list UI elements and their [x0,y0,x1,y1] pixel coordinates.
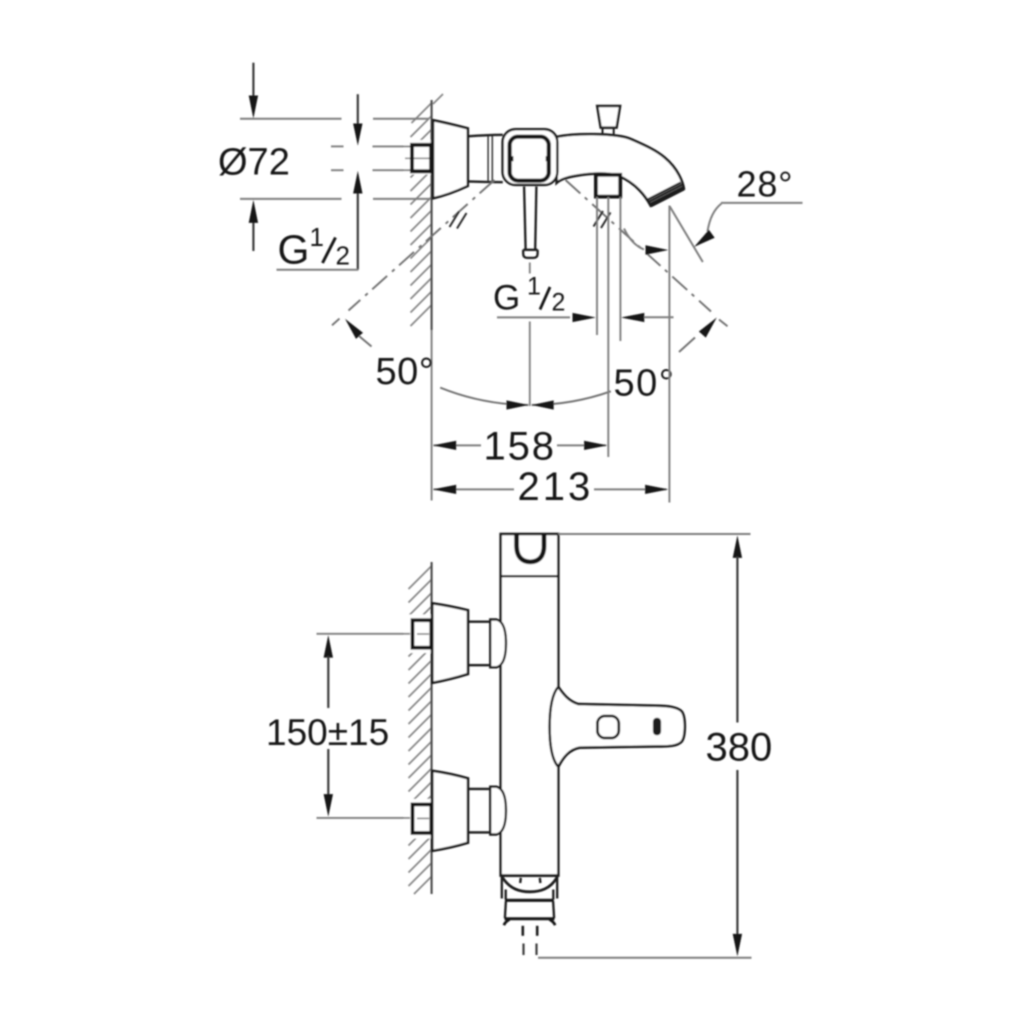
dimension 158 [433,425,608,469]
svg-text:50°: 50° [376,351,435,393]
lever button [597,716,618,738]
spout body [557,134,684,206]
diverter knob stem [603,128,614,135]
svg-text:50°: 50° [614,363,676,405]
top supply union cylinder [468,622,490,666]
extension line Ø72 bottom [240,198,430,200]
label G1/2 center [493,273,565,318]
extension line G1/2 nipple top [331,145,411,147]
wall hatching (top view) [411,94,444,326]
outlet side walls [502,877,557,900]
neck joint double line [488,136,492,182]
wall extension line down to 213 dimension [431,330,433,501]
svg-text:150±15: 150±15 [266,712,389,753]
lever handle shaft (top view) [524,187,536,250]
svg-text:2: 2 [552,289,566,317]
bath outlet dome [503,878,558,892]
cartridge notch left [510,156,514,161]
top supply escutcheon [432,603,468,683]
svg-text:28°: 28° [737,164,794,205]
mask behind supply nipple (top view) [404,140,432,175]
dimension G1/2 lower arrow (up) [353,171,362,270]
top supply union nut [490,620,506,668]
dimension Ø72 lower arrow [249,200,258,251]
dimension Ø72 upper arrow [249,63,258,119]
water stream stubs [523,926,537,936]
wall line (bottom view) [431,562,433,894]
cartridge notch right [546,156,550,161]
wall line (top view) [431,100,433,330]
label G1/2 top-left [278,222,350,273]
body column [501,534,559,876]
aerator sides [505,901,554,918]
dimension 150±15 arrows [324,635,333,817]
bath outlet top line [501,874,559,877]
bottom supply nipple (bold) [413,804,432,833]
spout angle line 28° [670,207,703,263]
escutcheon (top view) [433,120,468,198]
swivel boundary dash-dot line right [566,180,728,326]
svg-text:G: G [493,279,520,318]
extension line 150±15 bottom [317,817,411,819]
svg-text:1: 1 [310,222,324,252]
hose G1/2 extension line left [596,197,598,335]
extension line Ø72 top [240,118,429,120]
28° leader and arrow (right) [694,203,803,247]
spout tip extension line (213) [668,206,670,503]
hose G1/2 extension line right [619,197,621,341]
top supply nipple (bold) [413,620,432,648]
arc center arrow left (points right) [507,400,529,409]
28° arc arrow (left, points right at vertical line) [624,229,669,255]
mask behind supply nipples (bottom view) [404,615,432,654]
neck between escutcheon and cartridge [468,135,503,182]
water stream dashes [524,944,537,956]
aerator top line [505,899,554,902]
extension line 380 top [558,533,750,535]
swivel boundary dash-dot line left [332,180,495,325]
dimension G1/2 upper arrow (down) [353,94,362,145]
arc end arrow left (at swivel line) [345,319,372,347]
lever handle end cap [523,250,537,258]
lever dark mark [653,718,661,735]
axis marker left [450,212,467,229]
svg-text:1: 1 [527,273,541,301]
aerator bottom line [505,917,555,920]
leader G1/2 top-left [277,269,359,271]
lever handle (bottom view) [550,687,685,767]
column divider line [501,575,559,577]
arc center arrow right (points left) [532,400,554,409]
hand shower nipple G1/2 under spout (bold) [596,175,620,197]
diverter knob on spout [597,106,620,128]
svg-text:2: 2 [336,241,350,271]
spout outlet face hatch band [648,183,685,207]
bottom supply union cylinder [468,789,490,833]
50° arc right [532,391,611,405]
cartridge housing inner (bold) [510,137,549,181]
aerator flare feet [504,920,555,926]
dimension 213 [433,465,669,509]
svg-text:380: 380 [706,726,773,770]
supply nipple G1/2 (top view, bold) [405,145,431,171]
svg-text:Ø72: Ø72 [218,142,290,184]
shower hook U-notch [517,534,544,562]
bottom supply union nut [490,787,506,835]
dome ticks [520,878,540,883]
wall hatching (bottom view) [409,566,432,894]
50° arc left [440,388,528,405]
arc end arrow right (at swivel line) [679,318,717,353]
dimension 380 [733,535,742,956]
lever centerline [529,263,531,407]
leader G1/2 center with arrows [497,313,674,322]
extension line 150±15 top [317,633,411,635]
cartridge housing outer [503,129,558,185]
svg-text:G: G [278,227,310,273]
svg-text:158: 158 [484,425,556,469]
extension line 380 bottom [538,957,752,959]
svg-text:213: 213 [518,465,594,509]
hose centerline extension [607,197,609,457]
axis marker right [594,211,611,228]
extension line G1/2 nipple bottom [331,169,411,171]
bottom supply escutcheon [432,771,468,851]
